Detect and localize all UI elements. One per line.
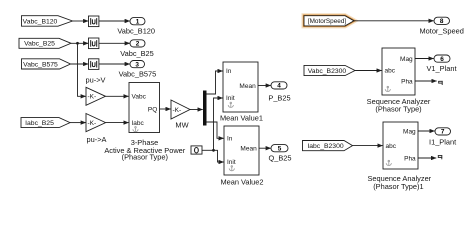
wire demux out1 to Mean Value1 In <box>207 71 223 94</box>
svg-text:Iabc_B25: Iabc_B25 <box>25 120 54 127</box>
wire junction to Mean Value2 Init <box>214 150 224 162</box>
anchor badge 3-phase block <box>133 127 138 132</box>
outport 2 <box>130 40 145 48</box>
svg-text:abc: abc <box>386 143 397 150</box>
svg-text:In: In <box>226 68 232 75</box>
wire Vabc_B25 to abs2 <box>71 42 88 44</box>
svg-text:pu->A: pu->A <box>87 135 107 144</box>
svg-text:Vabc_B2300: Vabc_B2300 <box>308 68 347 75</box>
wire MW to demux <box>190 109 203 111</box>
wire PQ to MW gain <box>160 108 171 110</box>
from tag Iabc_B2300 <box>303 141 353 151</box>
svg-text:Mean Value1: Mean Value1 <box>220 113 263 122</box>
anchor badge Sequence Analyzer 1 <box>386 160 391 165</box>
svg-text:In: In <box>227 136 233 143</box>
svg-text:Iabc_B2300: Iabc_B2300 <box>307 143 344 150</box>
svg-text:P_B25: P_B25 <box>268 93 290 102</box>
junction dot init <box>212 149 215 152</box>
terminator small block bottom <box>438 155 442 159</box>
wire Iabc_B2300 to abc port <box>353 145 383 147</box>
svg-text:6: 6 <box>440 56 444 63</box>
svg-text:7: 7 <box>441 129 445 136</box>
svg-text:-K-: -K- <box>88 94 97 101</box>
svg-text:Vabc_B25: Vabc_B25 <box>120 49 154 58</box>
anchor badge Mean Value1 <box>228 102 233 107</box>
wire Mean1 to outport 4 <box>258 85 271 87</box>
svg-text:Mean Value2: Mean Value2 <box>220 177 263 186</box>
anchor badge Sequence Analyzer <box>385 86 390 91</box>
from tag Iabc_B25 <box>21 118 70 128</box>
svg-text:4: 4 <box>277 83 281 90</box>
svg-text:Iabc: Iabc <box>132 120 145 127</box>
wire Vabc_B575 to abs3 <box>71 63 89 65</box>
wire Mag to outport 6 <box>415 58 434 60</box>
svg-text:5: 5 <box>278 146 282 153</box>
svg-text:Pha: Pha <box>404 155 416 162</box>
svg-text:[MotorSpeed]: [MotorSpeed] <box>308 18 347 25</box>
outport 6 <box>434 55 450 63</box>
svg-text:Init: Init <box>227 159 236 166</box>
from tag MotorSpeed (orange highlighted) <box>304 16 354 26</box>
outport 1 <box>130 18 145 26</box>
wire abs1 to outport 1 <box>99 20 130 22</box>
wire Vabc_B2300 to abc port <box>355 70 382 72</box>
outport 3 <box>130 61 145 69</box>
abs block |u| row2 <box>89 38 99 49</box>
svg-text:I1_Plant: I1_Plant <box>429 138 456 147</box>
outport 4 <box>271 82 287 90</box>
wire MotorSpeed to outport 8 <box>354 20 434 22</box>
svg-text:Q_B25: Q_B25 <box>268 154 291 163</box>
wire Mag to outport 7 <box>418 130 435 132</box>
svg-text:Vabc_B575: Vabc_B575 <box>23 61 58 68</box>
svg-text:-K-: -K- <box>173 107 182 114</box>
from tag Vabc_B120 <box>22 16 73 27</box>
svg-text:V1_Plant: V1_Plant <box>427 64 457 73</box>
constant 0 <box>191 146 202 154</box>
svg-text:2: 2 <box>136 41 140 48</box>
wire Pha to terminator 1 <box>418 157 436 159</box>
svg-text:Mag: Mag <box>403 128 416 135</box>
anchor badge Mean Value2 <box>229 166 234 171</box>
terminator small block top <box>438 81 442 85</box>
svg-text:Mean: Mean <box>239 83 256 90</box>
svg-text:Pha: Pha <box>401 78 413 85</box>
svg-text:Init: Init <box>226 95 235 102</box>
wire branch down to pu-V gain <box>78 43 86 96</box>
outport 8 <box>434 17 450 25</box>
wire Pha to terminator <box>415 80 437 82</box>
wire abs3 to outport 3 <box>99 63 130 65</box>
outport 5 <box>271 145 288 153</box>
svg-text:Mag: Mag <box>400 56 413 63</box>
svg-text:PQ: PQ <box>148 106 157 113</box>
from tag Vabc_B575 <box>22 59 71 69</box>
svg-text:(Phasor Type)1: (Phasor Type)1 <box>373 182 423 191</box>
abs block |u| row1 <box>89 16 99 27</box>
svg-text:MW: MW <box>175 120 188 129</box>
svg-text:-K-: -K- <box>88 120 97 127</box>
junction dot row2 <box>76 42 79 45</box>
svg-text:3: 3 <box>135 61 139 68</box>
svg-text:Vabc_B120: Vabc_B120 <box>117 27 155 36</box>
from tag Vabc_B25 <box>19 38 71 48</box>
gain MW <box>171 100 190 119</box>
svg-text:(Phasor Type): (Phasor Type) <box>122 153 168 162</box>
from tag Vabc_B2300 <box>304 65 355 75</box>
block Sequence Analyzer 1 <box>383 122 418 169</box>
wire junction up to Mean Value1 Init <box>214 98 223 150</box>
wire demux out2 to Mean Value2 In <box>207 122 224 138</box>
gain pu->V <box>86 87 106 105</box>
svg-text:Vabc_B120: Vabc_B120 <box>23 18 58 25</box>
block Mean Value1 <box>223 62 258 112</box>
svg-text:pu->V: pu->V <box>86 76 106 85</box>
svg-text:(Phasor Type): (Phasor Type) <box>375 104 421 113</box>
svg-text:Vabc_B575: Vabc_B575 <box>119 70 157 79</box>
wire Vabc_B120 to abs1 <box>73 20 89 22</box>
svg-text:Mean: Mean <box>240 146 257 153</box>
svg-text:abc: abc <box>385 68 396 75</box>
svg-text:Motor_Speed: Motor_Speed <box>420 26 464 35</box>
block Mean Value2 <box>224 126 259 175</box>
svg-text:8: 8 <box>440 18 444 25</box>
demux <box>203 91 207 126</box>
wire Mean2 to outport 5 <box>259 147 271 149</box>
wire Iabc_B25 to pu-A gain <box>70 122 86 124</box>
svg-text:Vabc: Vabc <box>132 94 147 101</box>
gain pu->A <box>86 114 106 132</box>
abs block |u| row3 <box>89 59 99 70</box>
wire 0 to junction <box>202 149 214 151</box>
wire pu->A to Iabc port <box>106 122 129 124</box>
wire pu->V to Vabc port <box>106 95 129 97</box>
svg-text:Vabc_B25: Vabc_B25 <box>24 41 55 48</box>
block 3-Phase Active & Reactive Power <box>129 83 160 133</box>
wire abs2 to outport 2 <box>99 42 130 44</box>
block Sequence Analyzer <box>382 48 415 95</box>
svg-text:1: 1 <box>136 19 140 26</box>
outport 7 <box>435 128 451 136</box>
